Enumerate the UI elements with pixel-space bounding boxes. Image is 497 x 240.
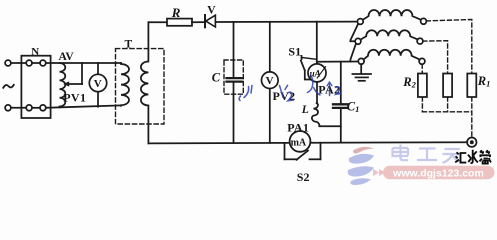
svg-text:R: R (171, 5, 181, 20)
svg-text:www.dgjs123.com: www.dgjs123.com (392, 167, 484, 179)
svg-text:L: L (301, 104, 309, 116)
svg-text:V: V (266, 75, 274, 87)
svg-text:N: N (31, 46, 39, 58)
svg-text:V: V (207, 5, 216, 17)
svg-text:S2: S2 (297, 170, 310, 184)
svg-text:PA1: PA1 (287, 120, 309, 134)
svg-text:mA: mA (291, 138, 307, 149)
svg-text:μA: μA (309, 69, 321, 79)
svg-text:S1: S1 (288, 45, 301, 59)
svg-text:T: T (125, 39, 133, 51)
svg-text:AV: AV (59, 51, 75, 63)
svg-text:PV1: PV1 (63, 90, 86, 104)
svg-text:V: V (94, 78, 102, 90)
svg-text:C: C (212, 71, 221, 85)
